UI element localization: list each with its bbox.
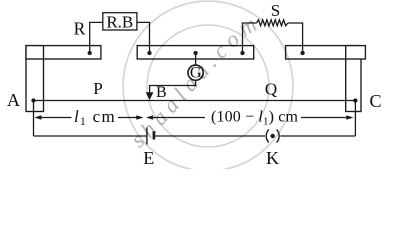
dimension arrow l1 cm (left) — [34, 115, 143, 119]
wire: resistor S to right strip — [288, 23, 303, 53]
node: right dot on middle strip — [240, 51, 244, 55]
wire: middle strip to resistor S — [243, 23, 257, 53]
svg-text:A: A — [7, 90, 20, 110]
wire: C down to battery circuit — [354, 101, 356, 137]
svg-text:K: K — [266, 148, 279, 168]
battery E — [147, 128, 154, 145]
metal strip left (L-shape) — [26, 46, 101, 112]
wire: left strip to R.B — [90, 22, 103, 53]
node: middle dot on middle strip (to G) — [193, 51, 197, 55]
svg-text:P: P — [93, 79, 102, 98]
galvanometer G — [188, 64, 203, 81]
metal strip right (L-shape) — [286, 46, 366, 112]
svg-text:Q: Q — [265, 80, 277, 99]
wire: bottom left segment — [34, 135, 147, 137]
jockey arrowhead at B — [146, 92, 154, 100]
svg-text:R.B: R.B — [106, 12, 133, 31]
wire: R.B to middle strip — [137, 22, 150, 53]
wire: bottom right segment — [280, 135, 355, 137]
node C dot — [353, 98, 357, 102]
svg-text:S: S — [271, 1, 280, 20]
resistor S — [257, 20, 288, 26]
node: left dot on middle strip — [147, 51, 151, 55]
metal strip middle — [137, 46, 254, 59]
key K (plug key symbol) — [266, 130, 279, 143]
svg-text:C: C — [369, 91, 381, 111]
dimension arrow (100 - l1) cm (right) — [146, 115, 354, 119]
bridge wire A to C — [34, 100, 356, 102]
wire: galvanometer to jockey B — [150, 80, 196, 94]
node A dot — [31, 98, 35, 102]
node: dot on right strip — [300, 51, 304, 55]
svg-text:R: R — [74, 18, 86, 38]
resistance box R.B — [103, 12, 137, 31]
wire: middle strip to galvanometer — [195, 53, 197, 66]
wire: bottom middle segment — [155, 135, 265, 137]
node: dot on left strip — [88, 51, 92, 55]
watermark — [123, 1, 293, 171]
wire: A down to battery circuit — [33, 101, 35, 137]
